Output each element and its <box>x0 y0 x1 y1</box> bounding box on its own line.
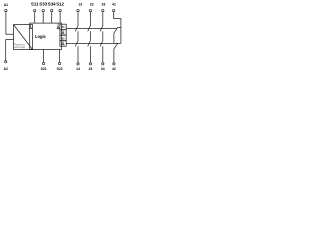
logic box <box>30 23 62 49</box>
wire pin41 branch to switch contact <box>118 26 121 28</box>
wire A2 <box>6 40 14 61</box>
pin 13 <box>77 9 79 11</box>
wire S12 <box>59 12 61 23</box>
glyph in driver box 2 <box>62 32 64 34</box>
wire column2 middle <box>89 31 91 40</box>
pin 23 <box>89 9 91 11</box>
svg-text:S34: S34 <box>48 2 56 7</box>
switch blade col2 row1 <box>88 25 91 31</box>
svg-text:14: 14 <box>76 67 80 71</box>
wire column3 bottom <box>102 46 104 62</box>
wire column4 middle <box>113 33 115 43</box>
pin 34 <box>102 63 104 65</box>
wire column4 bottom <box>113 49 115 63</box>
switch blade col4 row2 <box>114 43 118 49</box>
pin S12 <box>59 9 61 11</box>
level-shifter triangle mark <box>29 26 31 29</box>
switch blade col3 row1 <box>100 25 103 31</box>
pin 41 <box>113 9 115 11</box>
wire S33 <box>42 12 44 23</box>
pin 14 <box>77 63 79 65</box>
switch blade col1 row2 <box>75 40 78 46</box>
level-shifter diagonal <box>14 25 33 50</box>
svg-text:34: 34 <box>101 67 105 71</box>
wire column3 top <box>102 12 104 25</box>
pin 24 <box>89 63 91 65</box>
driver box 3 <box>60 35 66 41</box>
logic triangle mark <box>57 26 59 29</box>
pin 33 <box>102 9 104 11</box>
wire column3 middle <box>102 31 104 40</box>
pin S22 <box>58 62 60 64</box>
svg-text:24: 24 <box>89 67 93 71</box>
switch blade col1 row1 <box>75 25 78 31</box>
svg-text:S22: S22 <box>57 67 63 71</box>
bus row1 <box>66 27 117 29</box>
svg-text:X2: X2 <box>61 37 65 41</box>
svg-text:A1: A1 <box>4 3 8 7</box>
label power-on reset <box>14 44 26 50</box>
pin S11 <box>34 9 36 11</box>
wire S22 <box>59 50 61 63</box>
wire column1 top <box>77 12 79 25</box>
svg-text:41: 41 <box>112 3 116 7</box>
wire column1 middle <box>77 31 79 40</box>
pin S33 <box>42 9 44 11</box>
wire S11 <box>34 12 36 23</box>
wire S21 <box>43 50 45 63</box>
svg-text:33: 33 <box>102 3 106 7</box>
svg-text:23: 23 <box>90 3 94 7</box>
driver box 1 <box>60 24 66 30</box>
glyph in driver box 4 <box>62 43 64 45</box>
svg-text:A2: A2 <box>4 67 8 71</box>
bus row2 <box>66 42 121 44</box>
switch blade col4 row1 <box>114 27 118 33</box>
driver box 4 <box>60 41 66 47</box>
pin A1 <box>5 9 7 11</box>
wire column2 bottom <box>89 46 91 62</box>
svg-text:13: 13 <box>78 3 82 7</box>
level-shifter box <box>14 25 33 50</box>
switch blade col2 row2 <box>88 40 91 46</box>
svg-text:reset logic: reset logic <box>14 46 26 49</box>
pin 42 <box>113 63 115 65</box>
wire column1 bottom <box>77 46 79 62</box>
wire pin41 jog <box>114 12 121 44</box>
wire column2 top <box>89 12 91 25</box>
svg-text:S12: S12 <box>56 2 64 7</box>
svg-text:X1: X1 <box>61 25 65 29</box>
pin A2 <box>5 61 7 63</box>
pin S21 <box>42 62 44 64</box>
svg-text:S21: S21 <box>41 67 47 71</box>
driver box 2 <box>60 30 66 36</box>
svg-text:S11: S11 <box>31 2 39 7</box>
svg-text:42: 42 <box>112 67 116 71</box>
svg-text:Logic: Logic <box>35 34 47 39</box>
wire A1 <box>6 12 14 34</box>
switch blade col3 row2 <box>100 40 103 46</box>
wire S34 <box>51 12 53 23</box>
pin S34 <box>51 9 53 11</box>
svg-text:S33: S33 <box>39 2 47 7</box>
